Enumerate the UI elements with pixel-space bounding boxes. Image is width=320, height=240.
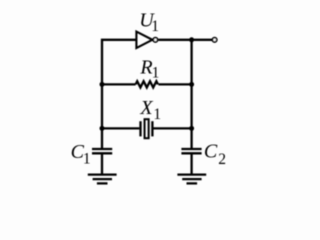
crystal X1 left plate	[139, 121, 141, 136]
capacitor C1 bottom plate	[92, 152, 112, 154]
crystal X1 body rectangle	[145, 119, 149, 138]
node: junction dot right resistor	[189, 82, 194, 87]
resistor R1 zigzag	[136, 81, 158, 87]
inverter output bubble	[153, 38, 157, 42]
wire: crystal row right	[154, 127, 192, 129]
ground (right)	[177, 175, 206, 184]
svg-text:1: 1	[153, 106, 161, 123]
op-amp U1 (inverter triangle)	[136, 32, 152, 48]
node: junction dot left crystal	[100, 126, 105, 131]
svg-text:1: 1	[83, 151, 91, 168]
wire: inverter output to terminal	[158, 39, 212, 41]
capacitor C2 bottom plate	[181, 152, 201, 154]
node: junction dot at output net top	[189, 37, 194, 42]
wire: left rail with top-left corner to inverter input	[102, 40, 136, 148]
node: open output terminal	[212, 38, 216, 42]
svg-text:C: C	[204, 141, 218, 163]
svg-text:X: X	[139, 97, 153, 119]
node: junction dot right crystal	[189, 126, 194, 131]
svg-text:2: 2	[218, 151, 226, 168]
wire: C2 to ground stem	[190, 154, 192, 174]
ground (left)	[88, 175, 117, 184]
wire: crystal row left	[102, 127, 139, 129]
capacitor C2 top plate	[181, 148, 201, 150]
wire: resistor row left	[102, 83, 136, 85]
crystal X1 right plate	[151, 121, 153, 136]
svg-text:1: 1	[151, 18, 159, 35]
wire: right rail	[190, 40, 192, 148]
capacitor C1 top plate	[92, 148, 112, 150]
wire: C1 to ground stem	[101, 154, 103, 174]
wire: resistor row right	[158, 83, 191, 85]
svg-text:1: 1	[152, 64, 160, 81]
node: junction dot left resistor	[100, 82, 105, 87]
